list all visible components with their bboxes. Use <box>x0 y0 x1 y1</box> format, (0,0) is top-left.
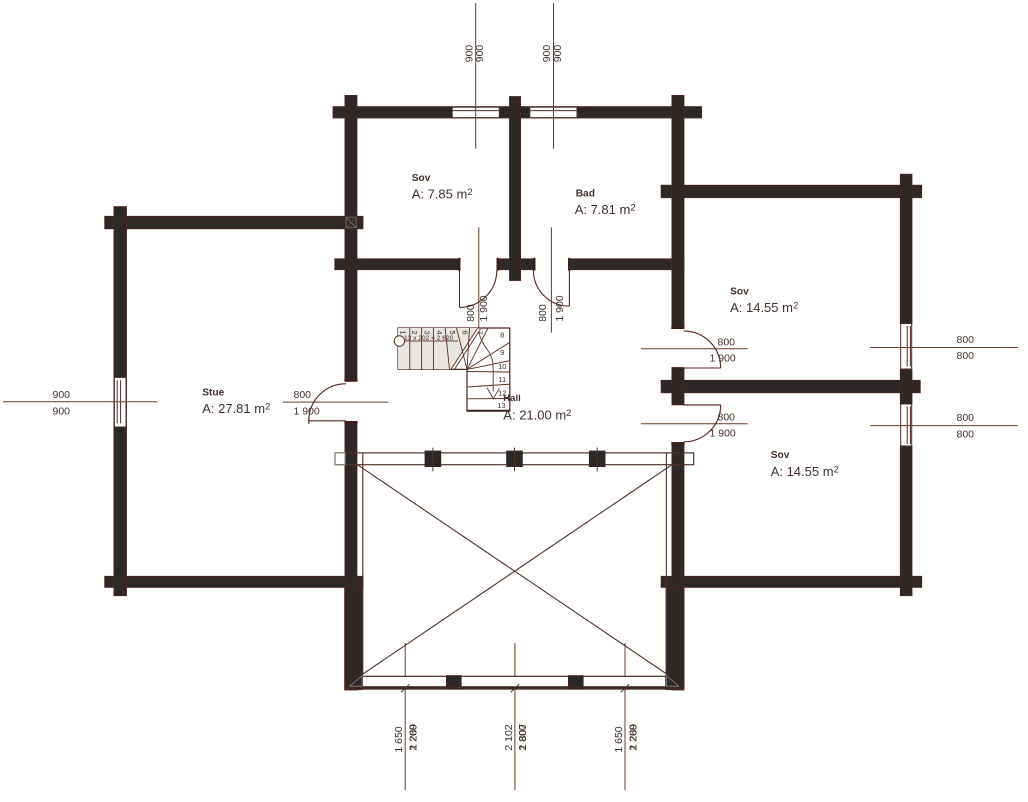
svg-text:1 807: 1 807 <box>517 724 529 750</box>
svg-text:800: 800 <box>957 350 975 362</box>
svg-text:13 x 202 = 2 620: 13 x 202 = 2 620 <box>404 335 454 342</box>
svg-text:1 650: 1 650 <box>393 726 405 752</box>
svg-text:900: 900 <box>474 45 486 63</box>
svg-text:1 650: 1 650 <box>613 726 625 752</box>
svg-text:8: 8 <box>500 331 504 340</box>
svg-text:A: 21.00 m2: A: 21.00 m2 <box>503 407 571 422</box>
svg-text:1: 1 <box>398 330 407 334</box>
svg-text:6: 6 <box>461 330 470 334</box>
svg-text:9: 9 <box>500 348 504 357</box>
svg-text:800: 800 <box>537 304 549 322</box>
svg-text:Sov: Sov <box>412 173 431 184</box>
svg-text:800: 800 <box>957 428 975 440</box>
svg-text:Stue: Stue <box>202 387 224 398</box>
svg-text:A: 14.55 m2: A: 14.55 m2 <box>771 464 839 479</box>
svg-text:1 900: 1 900 <box>710 427 736 439</box>
svg-text:1 900: 1 900 <box>710 353 736 365</box>
svg-text:800: 800 <box>957 334 975 346</box>
svg-text:2: 2 <box>410 330 419 334</box>
svg-text:900: 900 <box>53 405 71 417</box>
svg-text:1 900: 1 900 <box>294 405 320 417</box>
svg-text:A: 14.55 m2: A: 14.55 m2 <box>730 300 798 315</box>
svg-text:1 289: 1 289 <box>627 724 639 750</box>
svg-text:Sov: Sov <box>730 287 749 298</box>
svg-text:13: 13 <box>497 401 505 410</box>
svg-text:800: 800 <box>718 336 736 348</box>
svg-text:1 900: 1 900 <box>554 295 566 321</box>
svg-text:12: 12 <box>498 388 506 397</box>
svg-text:2 102: 2 102 <box>503 724 515 750</box>
svg-text:800: 800 <box>957 412 975 424</box>
svg-text:11: 11 <box>498 375 506 384</box>
svg-text:800: 800 <box>465 304 477 322</box>
svg-text:A: 7.81 m2: A: 7.81 m2 <box>575 202 636 217</box>
svg-text:4: 4 <box>435 330 444 334</box>
svg-text:3: 3 <box>423 330 432 334</box>
svg-text:5: 5 <box>448 330 457 334</box>
svg-text:10: 10 <box>498 362 506 371</box>
svg-text:1 289: 1 289 <box>407 724 419 750</box>
svg-text:800: 800 <box>294 389 312 401</box>
svg-text:Bad: Bad <box>576 189 595 200</box>
svg-text:A: 7.85 m2: A: 7.85 m2 <box>412 186 473 201</box>
svg-text:Sov: Sov <box>771 450 790 461</box>
svg-text:7: 7 <box>476 330 485 334</box>
svg-text:800: 800 <box>718 411 736 423</box>
svg-text:900: 900 <box>552 45 564 63</box>
svg-text:900: 900 <box>53 389 71 401</box>
svg-text:1 900: 1 900 <box>478 295 490 321</box>
svg-text:A: 27.81 m2: A: 27.81 m2 <box>202 401 270 416</box>
